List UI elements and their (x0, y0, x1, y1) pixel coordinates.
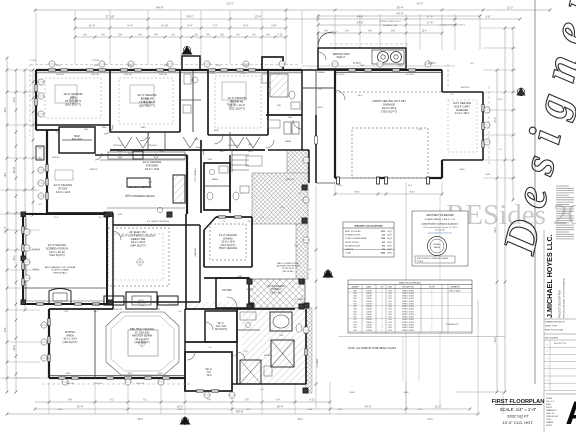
svg-text:W09: W09 (353, 311, 356, 313)
svg-text:202: 202 (382, 242, 385, 244)
svg-text:4696: 4696 (381, 252, 385, 255)
svg-text:1: 1 (432, 290, 433, 292)
svg-text:11’-6": 11’-6" (89, 24, 96, 28)
svg-text:3050: 3050 (94, 65, 100, 67)
svg-text:412: 412 (382, 234, 385, 237)
window tick marks on walls (49, 69, 56, 72)
svg-text:2740 A: 2740 A (93, 303, 100, 306)
svg-text:6040: 6040 (118, 151, 124, 153)
hatched walk below porch (306, 308, 312, 393)
svg-text:W14: W14 (353, 324, 356, 326)
svg-text:DRAWN: DRAWN (546, 421, 554, 424)
svg-text:2650: 2650 (360, 65, 366, 67)
svg-text:17 R.N.: 17 R.N. (29, 60, 37, 62)
svg-text:42-2: 42-2 (178, 409, 183, 411)
copyright paragraph top right (556, 185, 569, 187)
bath 2 fixtures (181, 99, 201, 101)
svg-text:BUILDING CALCULATIONS: BUILDING CALCULATIONS (354, 225, 383, 228)
svg-text:24’-2": 24’-2" (186, 15, 193, 19)
svg-text:FIRST FLOOR A/C: FIRST FLOOR A/C (345, 230, 362, 233)
svg-text:1: 1 (432, 309, 433, 311)
svg-text:3050: 3050 (158, 373, 164, 375)
svg-text:SCREEN PORCH: SCREEN PORCH (345, 235, 361, 237)
svg-text:2: 2 (546, 351, 547, 353)
screen porch columns (21, 212, 26, 217)
svg-text:2040: 2040 (388, 319, 392, 321)
svg-text:2680: 2680 (218, 309, 224, 311)
svg-text:13’-4": 13’-4" (254, 15, 261, 19)
svg-text:LAUN: LAUN (285, 140, 291, 143)
svg-text:2040: 2040 (388, 327, 392, 329)
svg-text:8’-10": 8’-10" (162, 24, 169, 28)
svg-text:SCALE: 1/4" = 1’-0": SCALE: 1/4" = 1’-0" (500, 407, 537, 412)
svg-text:6080: 6080 (460, 169, 466, 171)
toilet mbath (296, 324, 302, 332)
svg-text:6: 6 (546, 380, 547, 382)
svg-text:8-0 x 6-0: 8-0 x 6-0 (72, 137, 83, 141)
closet chevrons (230, 137, 244, 148)
svg-text:W12: W12 (353, 319, 356, 321)
roof overhang dashed top (30, 64, 300, 66)
svg-text:1: 1 (432, 330, 433, 332)
svg-text:2040: 2040 (388, 306, 392, 308)
svg-text:2: 2 (382, 301, 383, 303)
garage ceiling dashed (352, 128, 428, 178)
svg-text:12’-2": 12’-2" (507, 6, 514, 10)
watermark Designer script (493, 0, 576, 259)
svg-text:3: 3 (546, 358, 547, 360)
svg-text:W08: W08 (353, 309, 356, 311)
svg-text:CHECKED BY: CHECKED BY (546, 416, 559, 418)
porch columns (247, 279, 252, 284)
svg-text:PANTRY: PANTRY (286, 178, 295, 181)
great room tray dashed (108, 228, 169, 286)
svg-text:1: 1 (432, 327, 433, 329)
svg-text:2: 2 (382, 314, 383, 316)
svg-text:NUMBER: NUMBER (351, 287, 359, 289)
marker flag bottom center (180, 416, 191, 425)
garage outline (335, 69, 442, 71)
svg-text:COMMENTS: COMMENTS (450, 287, 461, 289)
svg-text:34-0: 34-0 (358, 95, 363, 97)
svg-text:W/D: W/D (277, 105, 282, 107)
svg-text:ON FILE: ON FILE (417, 261, 423, 263)
svg-text:DESCRIPTION: DESCRIPTION (554, 343, 567, 345)
svg-text:2650: 2650 (216, 65, 222, 67)
svg-text:(260 SQ FT): (260 SQ FT) (65, 103, 81, 107)
svg-text:3050: 3050 (56, 65, 62, 67)
svg-text:84’-8": 84’-8" (156, 6, 163, 10)
svg-text:2: 2 (382, 290, 383, 292)
svg-text:2: 2 (382, 322, 383, 324)
svg-text:2: 2 (382, 330, 383, 332)
svg-text:9040: 9040 (355, 192, 361, 194)
svg-text:24-8: 24-8 (308, 409, 313, 411)
svg-text:TOTAL: TOTAL (345, 252, 351, 255)
svg-text:M.BATH: M.BATH (264, 354, 273, 357)
svg-text:3050 SH: 3050 SH (56, 74, 64, 76)
bath fixtures row (246, 156, 262, 166)
svg-text:84’-8": 84’-8" (236, 410, 243, 414)
screen porch outline (23, 214, 107, 304)
svg-text:46’-2": 46’-2" (417, 2, 423, 5)
svg-text:5040: 5040 (220, 151, 226, 153)
svg-text:1: 1 (432, 319, 433, 321)
svg-text:1: 1 (432, 306, 433, 308)
hatched master bath floor (242, 310, 306, 383)
svg-text:PROJECT DESCRIPTION: PROJECT DESCRIPTION (559, 290, 562, 318)
garage door openings (338, 177, 378, 179)
svg-text:3332 SQ FT: 3332 SQ FT (507, 413, 529, 418)
svg-text:16-0: 16-0 (408, 185, 413, 187)
svg-text:2040SH: 2040SH (366, 296, 373, 298)
svg-text:2040: 2040 (388, 301, 392, 303)
foyer walls (216, 278, 249, 308)
svg-text:2040SH: 2040SH (366, 330, 373, 332)
bar counter (62, 139, 92, 141)
svg-text:W02: W02 (353, 293, 356, 295)
svg-text:2040SH: 2040SH (366, 306, 373, 308)
powder fixtures (209, 169, 214, 174)
svg-text:12’-0’ CEILING: 12’-0’ CEILING (195, 168, 197, 182)
svg-text:26-10: 26-10 (13, 166, 16, 173)
svg-text:3050: 3050 (66, 373, 72, 375)
svg-text:W16: W16 (353, 330, 356, 332)
extension lines bottom right (405, 182, 407, 409)
svg-text:8’-0": 8’-0" (243, 24, 248, 28)
svg-text:J.MICHAEL HOYES LLC.: J.MICHAEL HOYES LLC. (545, 234, 554, 318)
svg-text:W07: W07 (353, 306, 356, 308)
study bay window (36, 146, 44, 160)
svg-text:FIRST FLOOR PLAN: FIRST FLOOR PLAN (545, 328, 564, 331)
svg-text:4040 FXD: 4040 FXD (151, 309, 161, 311)
architect of record block (412, 211, 468, 266)
kitchen counter band (108, 152, 185, 159)
service yard equipment (378, 52, 389, 63)
dim vertical right of walk (315, 185, 317, 409)
svg-text:21'-6: 21'-6 (427, 419, 433, 421)
svg-text:5’-4": 5’-4" (187, 24, 192, 28)
svg-text:1: 1 (432, 317, 433, 319)
svg-text:2040SH: 2040SH (366, 317, 373, 319)
svg-text:7’-2": 7’-2" (212, 24, 217, 28)
svg-text:A: A (565, 395, 576, 431)
screen porch inner band (23, 287, 107, 289)
svg-text:2740 A: 2740 A (169, 303, 176, 306)
svg-text:2040SH: 2040SH (366, 309, 373, 311)
svg-text:4-0 WALK: 4-0 WALK (316, 358, 319, 368)
svg-text:SLOPE TO DRAIN: SLOPE TO DRAIN (51, 269, 69, 272)
dimension lines top (35, 9, 550, 11)
svg-text:PANEL: PANEL (33, 268, 40, 271)
hatched gallery block (252, 173, 308, 224)
chimney bump top (182, 56, 200, 70)
svg-text:1/4’ = 1’-0’: 1/4’ = 1’-0’ (546, 401, 555, 403)
pantry tall cabinets (173, 175, 185, 203)
svg-text:FLOOR: FLOOR (429, 287, 436, 289)
svg-text:FIRST FLOORPLAN: FIRST FLOORPLAN (492, 399, 545, 405)
title block border lines (534, 0, 536, 384)
powder room (200, 140, 202, 213)
svg-text:2040SH: 2040SH (366, 324, 373, 326)
svg-text:MUD: MUD (318, 107, 323, 109)
svg-text:2040: 2040 (388, 322, 392, 324)
svg-text:2880: 2880 (102, 127, 108, 129)
svg-text:26'-2: 26'-2 (297, 419, 303, 421)
summer kitchen niche (49, 289, 71, 305)
svg-text:TRAY CEILING: TRAY CEILING (219, 246, 237, 250)
svg-text:TRASH: TRASH (317, 71, 325, 74)
bar room (59, 127, 95, 153)
svg-text:3050: 3050 (164, 65, 170, 67)
svg-text:W01: W01 (353, 290, 356, 292)
svg-text:(384 SQ FT): (384 SQ FT) (130, 244, 146, 248)
dining walls (203, 230, 205, 267)
hatched walk mid strip (296, 224, 308, 279)
svg-text:3332: 3332 (381, 231, 385, 233)
great room top columns (104, 212, 109, 217)
dimension lines bottom (35, 401, 330, 403)
svg-text:17-6: 17-6 (308, 69, 313, 71)
closet band (110, 149, 265, 151)
hatched hall to master (188, 302, 237, 309)
svg-text:J.M.H.: J.M.H. (546, 419, 552, 421)
svg-text:PANTRY: PANTRY (90, 168, 99, 171)
svg-text:19’-2": 19’-2" (177, 405, 184, 409)
svg-text:(102 SQ FT): (102 SQ FT) (63, 340, 78, 344)
svg-text:1: 1 (432, 293, 433, 295)
svg-text:SCALE: SCALE (546, 397, 553, 400)
svg-text:1: 1 (432, 322, 433, 324)
architect seal (428, 237, 447, 256)
svg-text:TUB: TUB (279, 335, 284, 337)
svg-text:2040SH: 2040SH (366, 290, 373, 292)
horizontal extension lines left (7, 69, 40, 71)
svg-text:DRAWN BY /: DRAWN BY / (546, 409, 558, 412)
svg-text:28-2: 28-2 (418, 129, 423, 131)
svg-text:FOYER: FOYER (222, 288, 231, 292)
svg-text:2040SH: 2040SH (366, 311, 373, 313)
svg-text:27-6: 27-6 (494, 117, 497, 123)
svg-text:W03: W03 (353, 296, 356, 298)
wic2 block below (185, 352, 232, 391)
svg-text:AWL PLANKING: TILE ON SLAB: AWL PLANKING: TILE ON SLAB (45, 266, 76, 269)
svg-text:SCREEN: SCREEN (32, 249, 41, 251)
svg-text:GALLERY: GALLERY (194, 247, 197, 257)
svg-text:(SEE DETAIL): (SEE DETAIL) (282, 270, 294, 273)
great room walls (112, 213, 114, 309)
corridor/mud room (302, 69, 335, 71)
linen shelves (232, 154, 249, 156)
study desk (55, 170, 73, 180)
kitchen island (127, 178, 150, 187)
svg-text:WALK COVERED PORCH: WALK COVERED PORCH (277, 262, 299, 265)
svg-text:1: 1 (546, 344, 547, 346)
svg-text:2: 2 (382, 324, 383, 326)
den bottom wall (36, 129, 59, 131)
svg-text:(62 SQ FT): (62 SQ FT) (215, 328, 228, 331)
service yard (318, 48, 406, 69)
svg-text:SCREEN PORCH: SCREEN PORCH (345, 245, 361, 247)
svg-text:W10: W10 (353, 314, 356, 316)
bath2 shower hatch (270, 74, 288, 97)
svg-text:2040SH: 2040SH (366, 327, 373, 329)
svg-text:11-0 x 18-2: 11-0 x 18-2 (455, 111, 469, 115)
svg-text:3050 SH: 3050 SH (124, 74, 132, 76)
svg-text:2650: 2650 (398, 65, 404, 67)
bath 3 fixtures (262, 74, 280, 83)
dimension lines left (6, 58, 8, 392)
svg-text:2040: 2040 (388, 290, 392, 292)
svg-text:16-0: 16-0 (338, 185, 343, 187)
vertical extension lines from top dims (35, 10, 37, 64)
svg-text:2: 2 (382, 296, 383, 298)
svg-text:3050 SH: 3050 SH (91, 74, 99, 76)
shower (240, 360, 261, 384)
svg-text:9040: 9040 (404, 392, 410, 394)
svg-text:2880: 2880 (214, 130, 220, 132)
study left wall (46, 130, 48, 213)
svg-text:13-4: 13-4 (248, 221, 253, 223)
hall to garage walls (302, 149, 309, 151)
svg-text:20-8: 20-8 (4, 107, 7, 112)
svg-text:1: 1 (432, 298, 433, 300)
svg-text:2: 2 (382, 319, 383, 321)
window tag circles (49, 61, 55, 67)
screen porch inner screen line (25, 217, 27, 301)
svg-text:36’-4": 36’-4" (396, 6, 403, 10)
hatched entry walk strip (287, 150, 308, 175)
master octagon tray (106, 312, 179, 375)
svg-text:9040: 9040 (410, 192, 416, 194)
svg-text:30-2: 30-2 (13, 255, 16, 261)
svg-text:2040: 2040 (388, 298, 392, 300)
hatched front porch (249, 279, 305, 308)
svg-text:1: 1 (432, 324, 433, 326)
svg-text:23-4 x 8-7: 23-4 x 8-7 (270, 290, 282, 294)
svg-text:18-9: 18-9 (4, 172, 7, 177)
svg-text:(412 SQ FT): (412 SQ FT) (49, 253, 65, 257)
svg-text:2: 2 (382, 327, 383, 329)
svg-text:4-0 WALK: 4-0 WALK (295, 298, 305, 301)
svg-text:121’-6": 121’-6" (226, 2, 234, 5)
den left wall (35, 70, 37, 130)
svg-text:24-8: 24-8 (4, 327, 7, 332)
svg-text:(200 SQ FT): (200 SQ FT) (139, 104, 155, 108)
fireplace ketty electric (126, 292, 157, 309)
svg-text:14-2: 14-2 (94, 311, 99, 313)
svg-text:W(A) FT: W(A) FT (337, 56, 346, 59)
service yard gate arc (318, 32, 334, 48)
svg-text:SERVICE YARD: SERVICE YARD (333, 53, 350, 56)
svg-text:2-10: 2-10 (278, 34, 283, 37)
svg-text:16-4: 16-4 (58, 409, 63, 411)
bed (128, 330, 158, 356)
outer walls: main top wall (36, 69, 302, 71)
svg-text:5040: 5040 (248, 151, 254, 153)
svg-text:6/2023: 6/2023 (546, 407, 552, 409)
svg-text:4050 SH: 4050 SH (136, 383, 144, 385)
svg-text:27 RISA: 27 RISA (91, 59, 99, 62)
svg-text:2040SH: 2040SH (366, 301, 373, 303)
svg-text:SERVICE: SERVICE (461, 87, 470, 89)
svg-text:SHEET TITLE: SHEET TITLE (545, 325, 558, 327)
svg-text:2040: 2040 (388, 293, 392, 295)
svg-text:J.M.H. 23: J.M.H. 23 (546, 413, 554, 415)
svg-text:W05: W05 (353, 301, 356, 303)
svg-text:W15: W15 (353, 327, 356, 329)
walk columns (302, 185, 307, 190)
sitting area walls (48, 309, 50, 378)
svg-text:W13: W13 (353, 322, 356, 324)
svg-text:2040: 2040 (388, 309, 392, 311)
golf cart garage (441, 70, 443, 92)
svg-text:2040SH: 2040SH (366, 322, 373, 324)
svg-text:2040SH: 2040SH (366, 298, 373, 300)
svg-text:12-0: 12-0 (422, 30, 427, 33)
svg-text:2040SH: 2040SH (366, 293, 373, 295)
side wall below corridor (315, 115, 317, 183)
bath2 fixtures (233, 192, 239, 200)
svg-text:4: 4 (546, 365, 547, 367)
svg-text:2: 2 (382, 298, 383, 300)
master suite partitions (94, 309, 96, 378)
svg-text:1: 1 (432, 303, 433, 305)
bay bump top (262, 57, 283, 70)
svg-text:DRAWN/CHECKED BY: DRAWN/CHECKED BY (545, 320, 566, 323)
svg-text:76’-4": 76’-4" (3, 226, 7, 233)
bedroom tray ceiling dashes (45, 78, 101, 118)
svg-text:ABOVE/BEYOND PATTERN: ABOVE/BEYOND PATTERN (277, 265, 301, 268)
svg-text:LABEL: LABEL (366, 286, 371, 289)
svg-text:1: 1 (432, 296, 433, 298)
svg-text:17-2: 17-2 (418, 409, 423, 411)
bdrm beds (55, 85, 77, 103)
svg-text:2: 2 (382, 309, 383, 311)
kitchen counters (107, 207, 185, 209)
svg-text:412: 412 (382, 244, 385, 247)
svg-text:5: 5 (546, 373, 547, 375)
window seat bumps (104, 296, 124, 305)
dimension lines top right (garage) (318, 15, 480, 17)
svg-text:2040: 2040 (388, 324, 392, 326)
svg-text:2: 2 (382, 306, 383, 308)
svg-text:3050: 3050 (128, 65, 134, 67)
svg-text:3050 SH: 3050 SH (159, 74, 167, 76)
svg-text:4040 FXD: 4040 FXD (113, 309, 123, 311)
laundry walls (267, 70, 269, 115)
laundry machines (284, 122, 291, 134)
svg-text:17’-6": 17’-6" (427, 21, 434, 25)
roof overhang dashed (29, 64, 31, 136)
ceiling fans (70, 97, 76, 103)
svg-text:8’-8": 8’-8" (486, 16, 491, 19)
dimension lines right of plan (496, 70, 498, 392)
svg-text:14’-0": 14’-0" (365, 405, 372, 409)
svg-text:4050 SH: 4050 SH (66, 383, 74, 385)
svg-text:2: 2 (382, 311, 383, 313)
svg-text:9040: 9040 (350, 392, 356, 394)
svg-text:10’-0" CLG. HGT.: 10’-0" CLG. HGT. (503, 420, 534, 425)
svg-text:15-0 x 13-8: 15-0 x 13-8 (145, 167, 160, 171)
svg-text:2040: 2040 (388, 303, 392, 305)
golf cart dashes (448, 100, 477, 152)
svg-text:ISLAND W/ SEATING: ISLAND W/ SEATING (128, 186, 151, 189)
door swing arcs (104, 125, 113, 134)
building calculations table (343, 222, 394, 257)
svg-text:6-10: 6-10 (310, 399, 315, 402)
svg-text:10-0: 10-0 (206, 374, 212, 377)
